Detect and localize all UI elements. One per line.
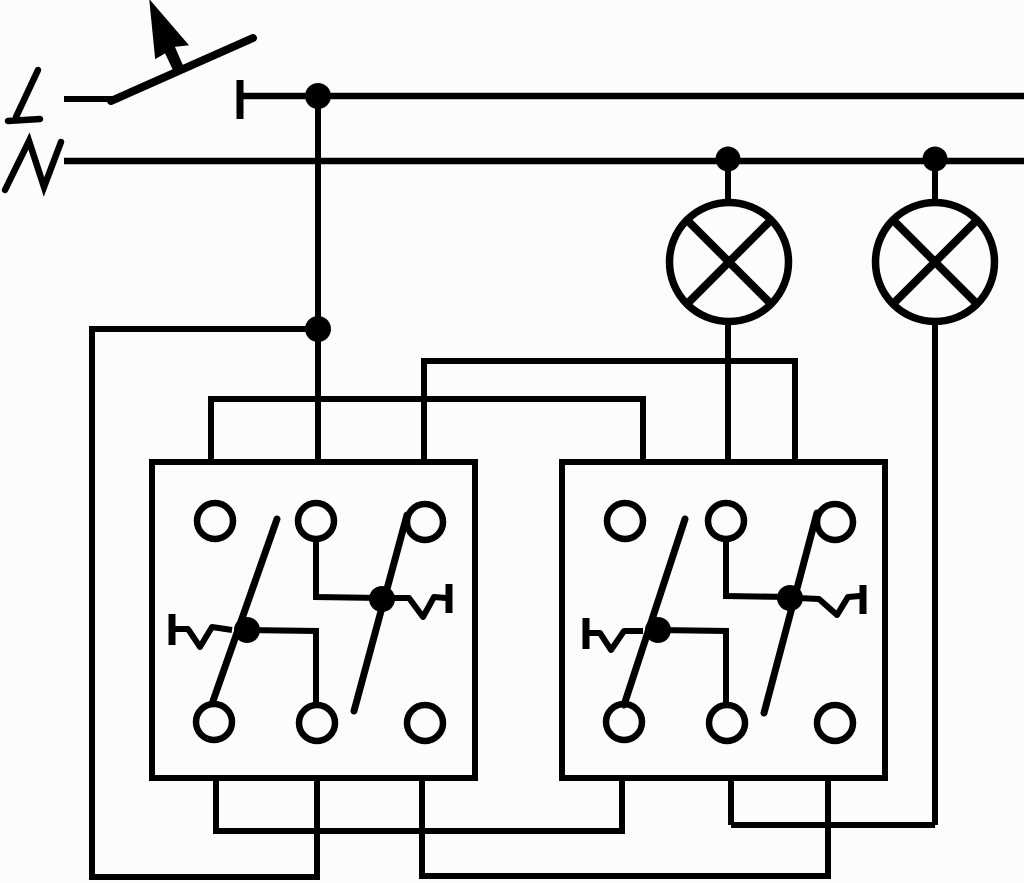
switch unit 1 mech B rocker — [354, 515, 407, 711]
switch S1 blade — [111, 38, 253, 101]
switch unit 2 mech A output wire — [658, 630, 726, 702]
wire L line — [243, 93, 1024, 100]
switch S1 actuator arrow — [151, 2, 188, 72]
wire N line — [64, 158, 1024, 165]
switch unit 1 mech B pivot — [369, 586, 395, 612]
switch unit 1 mech A rocker — [213, 519, 277, 701]
switch unit 2 mech B contact bar — [860, 585, 867, 614]
wire bottom H — [422, 778, 828, 876]
switch unit 2 mech A pivot — [645, 617, 671, 643]
switch unit 2 mech B input wire — [726, 540, 790, 597]
wire L stub — [64, 96, 114, 102]
wire lamp E2 bottom — [731, 320, 935, 825]
wire crossover E — [211, 399, 643, 462]
node L label — [8, 70, 40, 121]
lamp E2 — [876, 203, 995, 322]
wire lamp E1 bottom — [725, 320, 731, 462]
wire lamp E2 top — [932, 159, 938, 204]
switch unit 2 mech A rocker — [624, 519, 685, 705]
switch unit 2 mech B rocker — [764, 513, 817, 713]
switch unit 1 terminals bottom — [196, 704, 443, 741]
switch unit 1 mech A contact bar — [169, 614, 176, 645]
switch unit 1 box — [152, 462, 475, 778]
wire lamp E1 top — [725, 159, 731, 204]
switch unit 1 mech B input wire — [316, 541, 382, 598]
wire bottom G — [216, 778, 622, 831]
switch unit 1 mech A spring — [175, 627, 232, 647]
lamp E1 — [670, 203, 789, 322]
switch unit 2 mech B pivot — [777, 585, 803, 611]
switch unit 2 mech A contact bar — [583, 618, 590, 649]
node junction on L — [305, 83, 331, 109]
switch unit 2 terminals top — [607, 503, 853, 540]
switch unit 1 terminals top — [197, 503, 443, 540]
switch unit 1 mech A pivot — [234, 617, 260, 643]
node junction N lamp2 — [923, 147, 948, 172]
wire crossover F — [424, 361, 795, 462]
switch unit 2 terminals bottom — [606, 704, 853, 741]
switch unit 2 box — [562, 462, 885, 778]
switch unit 1 mech B contact bar — [446, 584, 453, 613]
node junction N lamp1 — [716, 147, 741, 172]
wire left loop — [92, 329, 318, 877]
switch S1 fixed contact — [237, 80, 244, 119]
node junction mid — [305, 316, 331, 342]
wire main vertical from L — [315, 96, 321, 462]
switch unit 1 mech B spring — [390, 597, 446, 617]
switch unit 2 mech B spring — [798, 596, 860, 615]
node N label — [5, 141, 61, 190]
switch unit 1 mech A output wire — [247, 630, 316, 702]
switch unit 2 mech A spring — [589, 631, 643, 650]
